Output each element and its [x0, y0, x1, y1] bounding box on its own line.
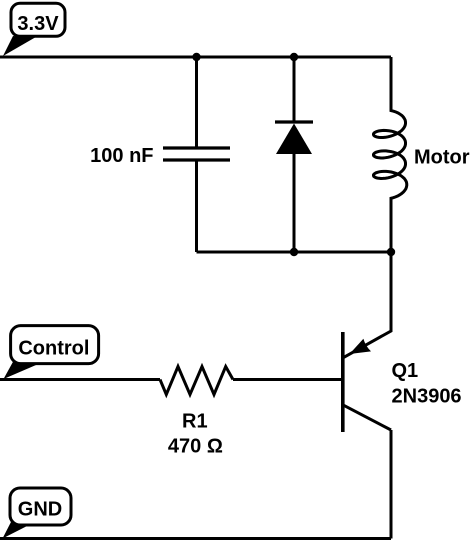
- capacitor C1 plates: [163, 148, 230, 160]
- node GND flag tail: [3, 521, 32, 539]
- wire resistor to base: [233, 378, 343, 381]
- svg-text:3.3V: 3.3V: [17, 13, 59, 35]
- svg-text:Q1: Q1: [392, 360, 419, 382]
- wire diode top lead: [293, 57, 296, 122]
- wire bottom rail: [197, 251, 392, 254]
- junction dot capacitor top: [192, 53, 200, 61]
- wire diode bottom lead: [293, 154, 296, 252]
- inductor motor coil: [374, 57, 407, 252]
- wire motor to transistor emitter: [343, 252, 391, 358]
- wire base: [0, 378, 160, 381]
- junction dot diode top: [290, 53, 298, 61]
- junction dot motor bottom: [387, 248, 395, 256]
- node 3.3V flag bubble: [11, 3, 65, 36]
- svg-text:2N3906: 2N3906: [392, 386, 462, 408]
- node Control flag bubble: [11, 326, 99, 364]
- node Control flag tail: [4, 360, 44, 379]
- svg-text:100 nF: 100 nF: [90, 145, 153, 167]
- diode D1 cathode bar: [275, 120, 313, 123]
- wire GND rail: [0, 537, 391, 540]
- resistor R1 zigzag: [160, 367, 233, 395]
- svg-text:Motor: Motor: [414, 147, 470, 169]
- node GND flag bubble: [10, 488, 71, 525]
- wire transistor collector to GND rail: [390, 430, 393, 539]
- svg-text:470 Ω: 470 Ω: [168, 436, 223, 458]
- junction dot diode bottom: [290, 248, 298, 256]
- svg-text:R1: R1: [182, 411, 208, 433]
- svg-text:GND: GND: [18, 498, 62, 520]
- wire capacitor top lead: [195, 57, 198, 148]
- node 3.3V flag tail: [3, 36, 35, 56]
- transistor Q1 collector diagonal: [343, 405, 391, 430]
- transistor Q1 emitter arrow: [350, 339, 372, 354]
- diode D1 triangle: [276, 124, 312, 155]
- svg-text:Control: Control: [18, 337, 89, 359]
- wire capacitor bottom lead: [195, 160, 198, 252]
- transistor Q1 base bar: [341, 332, 345, 432]
- wire top rail 3.3V: [0, 56, 391, 59]
